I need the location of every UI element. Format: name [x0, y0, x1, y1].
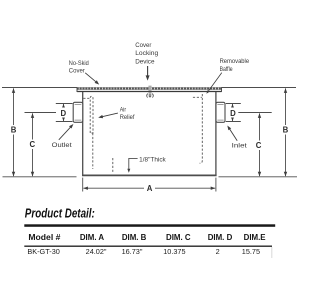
svg-text:No-Skid: No-Skid: [69, 60, 89, 67]
svg-text:A: A: [147, 184, 153, 193]
svg-text:Product Detail:: Product Detail:: [25, 207, 95, 221]
svg-text:D: D: [60, 109, 66, 118]
svg-text:DIM. B: DIM. B: [122, 233, 147, 242]
svg-text:1/8"Thick: 1/8"Thick: [139, 157, 166, 164]
svg-text:B: B: [283, 126, 289, 135]
svg-text:BK-GT-30: BK-GT-30: [27, 247, 59, 256]
svg-text:DIM. D: DIM. D: [208, 233, 233, 242]
svg-text:Relief: Relief: [120, 114, 135, 121]
svg-text:Device: Device: [135, 58, 155, 65]
svg-text:DIM. C: DIM. C: [166, 233, 191, 242]
svg-text:Outlet: Outlet: [52, 142, 72, 149]
svg-text:24.02": 24.02": [86, 247, 107, 256]
svg-text:10.375: 10.375: [163, 247, 185, 256]
svg-text:15.75: 15.75: [242, 247, 260, 256]
svg-text:Inlet: Inlet: [232, 143, 247, 150]
svg-text:Removable: Removable: [220, 58, 250, 65]
svg-text:DIM.E: DIM.E: [244, 233, 266, 242]
svg-text:16.73": 16.73": [122, 247, 143, 256]
svg-text:Cover: Cover: [69, 68, 86, 75]
svg-text:Air: Air: [120, 107, 127, 114]
svg-text:D: D: [230, 109, 236, 118]
svg-text:C: C: [256, 141, 262, 150]
svg-text:Locking: Locking: [135, 50, 158, 57]
svg-text:DIM. A: DIM. A: [80, 233, 105, 242]
svg-text:B: B: [11, 126, 17, 135]
svg-text:2: 2: [216, 247, 220, 256]
svg-text:Baffle: Baffle: [220, 66, 233, 73]
svg-text:Cover: Cover: [135, 42, 152, 49]
svg-text:C: C: [29, 140, 35, 149]
svg-text:Model #: Model #: [28, 233, 61, 242]
